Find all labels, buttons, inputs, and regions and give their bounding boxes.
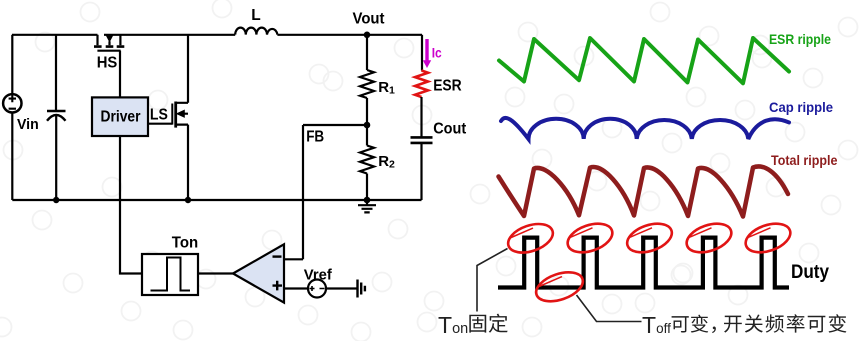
svg-text:ESR ripple: ESR ripple [769, 32, 831, 47]
svg-text:L: L [251, 7, 260, 24]
svg-text:Vin: Vin [17, 116, 39, 133]
svg-text:Ton: Ton [172, 235, 198, 252]
svg-text:Vout: Vout [353, 11, 386, 28]
svg-text:Vref: Vref [304, 266, 333, 283]
svg-text:ESR: ESR [433, 77, 462, 94]
svg-text:Total ripple: Total ripple [771, 153, 838, 168]
svg-text:Cout: Cout [433, 121, 467, 138]
svg-text:Driver: Driver [101, 108, 141, 125]
svg-text:Ic: Ic [432, 45, 442, 61]
svg-text:LS: LS [150, 107, 168, 124]
svg-text:Cap ripple: Cap ripple [769, 100, 833, 115]
svg-text:Duty: Duty [791, 262, 829, 283]
svg-text:FB: FB [306, 129, 324, 146]
svg-text:HS: HS [97, 54, 118, 71]
